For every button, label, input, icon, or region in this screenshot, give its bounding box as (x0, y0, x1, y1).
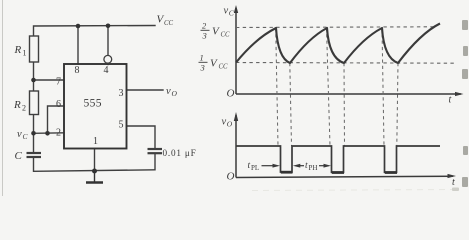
wire node between R2 and C (33, 115, 35, 154)
resistor R2 (30, 91, 39, 115)
ground (86, 171, 103, 183)
wire pin3 output (127, 89, 164, 91)
svg-text:PL: PL (251, 164, 259, 172)
wire C bottom to ground rail (34, 157, 155, 171)
svg-text:t: t (452, 177, 455, 188)
node pin6-pin2 (45, 131, 50, 136)
svg-text:0.01 μF: 0.01 μF (163, 148, 197, 158)
wire pin5 (127, 126, 156, 149)
wire pin6 (48, 106, 65, 133)
svg-text:3: 3 (202, 31, 207, 41)
vertical dashed guides peak1/valley1 (276, 28, 278, 146)
svg-text:v: v (222, 117, 227, 128)
faint print-through streak bottom (252, 190, 456, 191)
svg-text:t: t (449, 95, 452, 106)
svg-text:1: 1 (200, 53, 204, 63)
wire pin4 lower (107, 63, 109, 64)
svg-text:6: 6 (56, 99, 61, 110)
node vC (31, 131, 36, 136)
node junction dots (31, 24, 110, 174)
svg-text:1: 1 (23, 49, 27, 58)
wire R1 bottom to R2 top (33, 62, 35, 91)
svg-text:555: 555 (84, 98, 102, 110)
node rail-pin8 (76, 24, 81, 29)
top chart y-axis (235, 8, 237, 94)
svg-text:v: v (224, 6, 229, 17)
wire pin8 (77, 26, 79, 64)
wire bypass cap bottom (154, 153, 156, 170)
svg-text:R: R (13, 99, 21, 111)
svg-text:5: 5 (119, 120, 124, 131)
node ground (92, 169, 97, 174)
wire VCC top rail (34, 26, 156, 37)
wire pin1 (94, 149, 96, 172)
svg-text:O: O (227, 120, 233, 129)
svg-text:O: O (172, 89, 178, 98)
dashed level 1/3 VCC (236, 62, 455, 65)
dashed level 2/3 VCC (236, 26, 437, 29)
svg-text:3: 3 (200, 63, 205, 73)
svg-text:v: v (166, 86, 171, 97)
page-edge glyph fragments right side (462, 20, 468, 187)
capacitor 0.01uF (148, 149, 163, 153)
svg-text:8: 8 (75, 65, 80, 76)
label 1/3 VCC (199, 53, 229, 73)
svg-text:3: 3 (119, 88, 124, 99)
svg-text:O: O (227, 88, 235, 100)
svg-text:2: 2 (56, 128, 61, 139)
node rail-pin4 (106, 24, 111, 29)
svg-text:1: 1 (93, 136, 98, 147)
top chart x-axis (236, 93, 461, 95)
vC sawtooth waveform (236, 24, 440, 64)
svg-text:7: 7 (56, 77, 61, 88)
svg-text:v: v (17, 129, 22, 140)
op-amp U1 555 timer box (64, 64, 127, 149)
wire pin4 upper (107, 26, 109, 56)
wire pin2 node vC (34, 132, 65, 135)
bottom chart x-axis (236, 176, 453, 177)
svg-text:2: 2 (22, 104, 26, 113)
vertical dashed guides peak3/valley3 (382, 28, 384, 146)
svg-text:CC: CC (219, 64, 229, 71)
svg-text:O: O (227, 171, 235, 183)
wire pin7 (34, 79, 65, 81)
label 2/3 VCC (201, 21, 231, 41)
svg-text:CC: CC (164, 20, 174, 27)
reset circle pin 4 (104, 55, 112, 63)
page edge line (2, 0, 4, 196)
svg-text:C: C (15, 150, 23, 162)
capacitor C (27, 153, 42, 157)
svg-text:CC: CC (221, 32, 231, 39)
svg-text:PH: PH (309, 164, 318, 172)
thick pulse bottoms (281, 171, 397, 174)
label tPH with arrows (293, 164, 301, 168)
svg-text:R: R (14, 44, 22, 56)
vO square waveform (236, 146, 440, 172)
bottom chart y-axis (235, 115, 237, 178)
svg-text:4: 4 (104, 65, 109, 76)
vertical dashed guides peak2/valley2 (327, 28, 331, 146)
resistor R1 (30, 36, 39, 62)
node R1-R2-pin7 (31, 78, 36, 83)
